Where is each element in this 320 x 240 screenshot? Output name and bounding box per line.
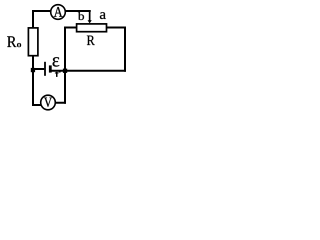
ammeter U1 circle (51, 5, 66, 20)
wire top-right horizontal (ammeter to wiper arrow) (65, 10, 91, 12)
wire right vertical (124, 27, 126, 72)
wire bottom-right horizontal (battery to right branch) (51, 70, 126, 72)
wire left vertical bottom (R0 to bottom corner) (32, 55, 34, 105)
resistor R0 (28, 28, 38, 56)
resistor R rheostat body (77, 24, 107, 32)
battery short plate (49, 65, 52, 72)
label R0 subscript o (17, 43, 21, 47)
wire R left terminal to mid vertical (64, 27, 77, 29)
wire R right terminal to right edge (106, 27, 126, 29)
voltmeter U2 circle (41, 95, 56, 110)
rheostat wiper arrow (88, 10, 92, 23)
battery long plate (44, 62, 46, 76)
label R (87, 36, 95, 45)
label a terminal (100, 12, 106, 19)
wire top-left horizontal (node to ammeter) (32, 10, 51, 12)
ammeter label A (54, 7, 63, 17)
wire mid vertical (voltmeter tap) (64, 27, 66, 104)
wire bottom-left horizontal (corner to voltmeter) (32, 104, 41, 106)
node junction dot battery positive (63, 69, 67, 73)
voltmeter label V (44, 98, 52, 107)
wire battery negative lead (33, 68, 44, 70)
wire left vertical top (corner to R0) (32, 10, 34, 29)
label R0 letter R (7, 36, 16, 47)
label r internal resistance (55, 71, 61, 77)
wire voltmeter right lead (55, 102, 66, 104)
label epsilon EMF (53, 57, 60, 66)
label b terminal (78, 12, 84, 20)
node junction dot battery negative (31, 68, 35, 72)
